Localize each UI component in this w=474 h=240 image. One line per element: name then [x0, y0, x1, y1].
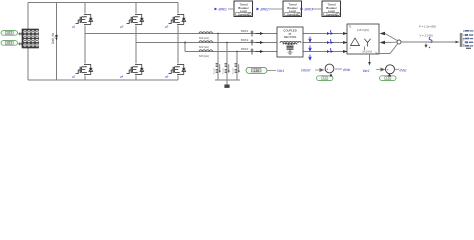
- svg-text:Uab_hv: Uab_hv: [51, 33, 55, 44]
- svg-text:Vac1: Vac1: [363, 69, 370, 73]
- svg-text:Ecap2: Ecap2: [223, 67, 225, 74]
- svg-text:BRK3: BRK3: [305, 8, 314, 12]
- svg-text:+: +: [326, 68, 328, 72]
- svg-text:g5: g5: [165, 25, 169, 29]
- svg-text:P = 1.5e+008: P = 1.5e+008: [419, 24, 436, 28]
- svg-text:Ecap3: Ecap3: [233, 67, 235, 74]
- svg-text:g3: g3: [120, 25, 124, 29]
- svg-text:BRK2: BRK2: [241, 38, 249, 42]
- svg-text:BRK1: BRK1: [219, 8, 228, 12]
- svg-text:BRK1: BRK1: [241, 29, 249, 33]
- svg-text:SECTION: SECTION: [284, 35, 296, 39]
- svg-text:Vdc1: Vdc1: [277, 69, 284, 73]
- svg-text:BRK2: BRK2: [261, 8, 270, 12]
- svg-text:600 [uH]: 600 [uH]: [199, 45, 209, 49]
- svg-text:dVdc: dVdc: [343, 68, 351, 72]
- svg-text:600 [uH]: 600 [uH]: [199, 54, 209, 58]
- svg-text:dVac: dVac: [400, 68, 408, 72]
- svg-text:Vdcref: Vdcref: [301, 69, 311, 73]
- svg-text:g6: g6: [165, 75, 169, 79]
- svg-text:1.38: 1.38: [253, 68, 259, 72]
- svg-text:g2: g2: [72, 75, 76, 79]
- svg-text:g4: g4: [120, 75, 124, 79]
- svg-text:34.5 [kV]: 34.5 [kV]: [362, 51, 372, 54]
- svg-text:Ecap1: Ecap1: [214, 67, 216, 74]
- svg-text:115.0 [kV]: 115.0 [kV]: [357, 28, 369, 32]
- svg-text:+: +: [387, 68, 389, 72]
- svg-text:V = 2.0 PU: V = 2.0 PU: [420, 33, 434, 37]
- svg-text:g1: g1: [72, 25, 76, 29]
- svg-text:600 [uH]: 600 [uH]: [199, 36, 209, 40]
- svg-text:BRK3: BRK3: [241, 47, 249, 51]
